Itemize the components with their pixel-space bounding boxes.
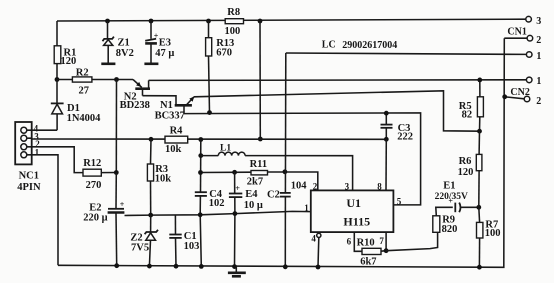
svg-text:3: 3 (536, 16, 541, 27)
svg-text:5: 5 (397, 196, 402, 206)
svg-text:220 μ: 220 μ (83, 213, 107, 224)
svg-text:Z1: Z1 (118, 38, 130, 49)
node C4 bottom junction (198, 212, 203, 217)
capacitor E3 (144, 21, 174, 64)
svg-text:E1: E1 (443, 180, 455, 191)
svg-text:NC1: NC1 (19, 170, 39, 181)
node E4 bottom junction (233, 211, 238, 216)
wire R8 right drop to pin8 line (259, 21, 261, 139)
svg-text:8V2: 8V2 (116, 48, 134, 59)
svg-text:R8: R8 (227, 7, 240, 18)
node E4 top junction (232, 170, 237, 175)
node R11 right / C2 top junction (283, 169, 288, 174)
transistor N2 (120, 80, 150, 111)
svg-text:100: 100 (225, 26, 241, 37)
node E3 top junction (149, 19, 154, 24)
capacitor C1 (169, 215, 199, 266)
svg-text:2: 2 (313, 181, 318, 191)
resistor R5 (459, 80, 484, 131)
diode D1 (51, 80, 101, 131)
node R1-R2 junction (55, 77, 60, 82)
svg-text:100: 100 (485, 228, 501, 239)
connector CN2 (505, 76, 542, 107)
svg-text:104: 104 (291, 180, 308, 191)
node C3 bottom / pin8 junction (384, 137, 389, 142)
node 172-line left (198, 170, 203, 175)
svg-text:R12: R12 (83, 158, 101, 169)
svg-text:2: 2 (536, 96, 541, 107)
svg-text:LC: LC (322, 40, 336, 51)
svg-text:L1: L1 (220, 143, 231, 153)
wire bottom rail (58, 38, 504, 267)
connector CN1 (504, 16, 541, 62)
svg-text:120: 120 (61, 56, 77, 67)
node Z1 top junction (105, 19, 110, 24)
node R5 top junction (477, 78, 482, 83)
node rail Z2 (147, 264, 152, 269)
svg-text:6: 6 (347, 236, 352, 246)
wire NC1 pin4 to D1 (27, 129, 57, 131)
node R3 bottom junction (148, 213, 153, 218)
svg-text:+: + (120, 200, 125, 209)
wire 172 line (201, 171, 252, 173)
svg-text:2: 2 (536, 35, 541, 46)
wire NC1 pin1 to bottom rail (27, 155, 58, 265)
svg-text:270: 270 (86, 180, 102, 191)
capacitor E2 (83, 173, 125, 266)
node L1 left junction (198, 153, 203, 158)
wire pin6 stub (354, 232, 362, 251)
svg-text:10k: 10k (165, 144, 182, 155)
zener Z1 (101, 21, 134, 64)
wire NC1 pin2 to R12 (27, 147, 83, 173)
svg-text:29002617004: 29002617004 (342, 40, 397, 51)
wire CN1-1 line (286, 53, 526, 54)
node pin7 junction (384, 248, 389, 253)
node R5 bottom junction (477, 129, 482, 134)
wire pin7 stub (385, 232, 387, 251)
node CN2-2 junction (502, 94, 507, 99)
svg-text:103: 103 (184, 241, 200, 252)
svg-text:2k7: 2k7 (247, 176, 263, 187)
label LC code (322, 40, 397, 51)
resistor R1 (54, 46, 76, 80)
node drop meets pin3 line (258, 137, 263, 142)
wire top rail (57, 19, 526, 21)
IC U1 (304, 181, 402, 246)
svg-text:7: 7 (379, 236, 384, 246)
svg-text:120: 120 (458, 167, 474, 178)
resistor R9 (433, 207, 458, 235)
svg-text:R6: R6 (459, 156, 472, 167)
capacitor C2 (267, 53, 307, 267)
svg-text:BC337: BC337 (155, 110, 185, 121)
svg-text:1: 1 (35, 147, 40, 157)
resistor R10 (357, 237, 387, 267)
capacitor C4 (195, 189, 225, 266)
zener Z2 (130, 215, 158, 266)
resistor R8 (225, 7, 244, 37)
resistor R12 (83, 158, 116, 191)
wire N2 base to N1 collector (143, 96, 177, 105)
svg-text:BD238: BD238 (120, 100, 150, 111)
svg-text:1: 1 (536, 51, 541, 62)
node E1 / R6 / R7 junction (476, 205, 481, 210)
node rail R7 (477, 265, 482, 270)
node rail C1 (174, 264, 179, 269)
svg-text:R4: R4 (170, 125, 184, 136)
node rail C2 (283, 264, 288, 269)
svg-text:8: 8 (377, 181, 382, 191)
wire pin8 drop (385, 139, 387, 190)
node R8 right junction (258, 19, 263, 24)
node rail E4 (232, 264, 237, 269)
pin4 circle (317, 233, 321, 237)
svg-text:47 μ: 47 μ (155, 48, 174, 59)
resistor R11 (247, 159, 318, 190)
transistor N1 (155, 97, 195, 122)
svg-text:102: 102 (209, 198, 225, 209)
resistor R2 (72, 68, 92, 97)
capacitor E1 (435, 180, 479, 212)
svg-text:H115: H115 (343, 215, 370, 229)
node R2 right junction (114, 77, 119, 82)
wire NC1 pin3 line (27, 138, 387, 139)
wire C4 column (200, 140, 202, 193)
resistor R3 (147, 139, 171, 215)
svg-text:220/35V: 220/35V (435, 192, 468, 202)
svg-text:27: 27 (79, 86, 90, 97)
wire N2 collector line to CN2-1 (149, 79, 526, 82)
capacitor E4 (229, 172, 263, 266)
svg-text:3: 3 (345, 181, 350, 191)
svg-text:7V5: 7V5 (131, 242, 149, 253)
resistor R7 (477, 207, 501, 267)
node C4 column top junction (198, 137, 203, 142)
svg-text:E3: E3 (159, 38, 171, 49)
svg-text:R10: R10 (357, 237, 375, 248)
wire N1 emitter line (194, 91, 480, 131)
ground (228, 267, 246, 277)
wire R1 upper lead (56, 21, 58, 46)
svg-text:222: 222 (397, 132, 413, 143)
svg-text:1N4004: 1N4004 (67, 113, 102, 124)
svg-text:R2: R2 (76, 68, 89, 79)
node rail pin4 (316, 265, 321, 270)
resistor R13 (206, 21, 235, 113)
svg-text:4PIN: 4PIN (17, 182, 41, 193)
svg-text:1: 1 (536, 76, 541, 87)
svg-text:82: 82 (462, 109, 473, 120)
svg-text:E4: E4 (245, 189, 258, 200)
wire pin1 line (125, 211, 311, 215)
node rail E2 (114, 263, 119, 268)
node C3 top junction (384, 111, 389, 116)
svg-text:10 μ: 10 μ (244, 200, 263, 211)
svg-text:4: 4 (311, 234, 316, 244)
wire pin7 to R9 (386, 232, 438, 250)
node rail C4 (199, 264, 204, 269)
svg-text:820: 820 (442, 224, 458, 235)
svg-text:U1: U1 (346, 196, 361, 210)
wire pin4 to rail (317, 238, 320, 268)
node R13 bottom on base line (207, 110, 212, 115)
svg-text:R11: R11 (250, 159, 268, 170)
capacitor C3 (381, 113, 414, 142)
inductor L1 (201, 143, 353, 190)
svg-text:10k: 10k (155, 173, 172, 184)
svg-text:C2: C2 (267, 190, 280, 201)
svg-text:CN1: CN1 (507, 26, 526, 37)
svg-text:670: 670 (216, 48, 232, 59)
resistor R6 (458, 131, 482, 207)
wire R2-node drop column (115, 80, 117, 173)
wire R2 line (57, 79, 133, 81)
resistor R4 (165, 125, 188, 155)
svg-text:+: + (235, 184, 240, 193)
wire N1 base line to pin5 (184, 113, 421, 205)
node R3 top junction (149, 137, 154, 142)
svg-text:1: 1 (304, 203, 309, 213)
node R13 top junction (206, 19, 211, 24)
node R12 right junction (114, 170, 119, 175)
svg-text:6k7: 6k7 (360, 256, 376, 267)
connector NC1 (15, 122, 41, 193)
